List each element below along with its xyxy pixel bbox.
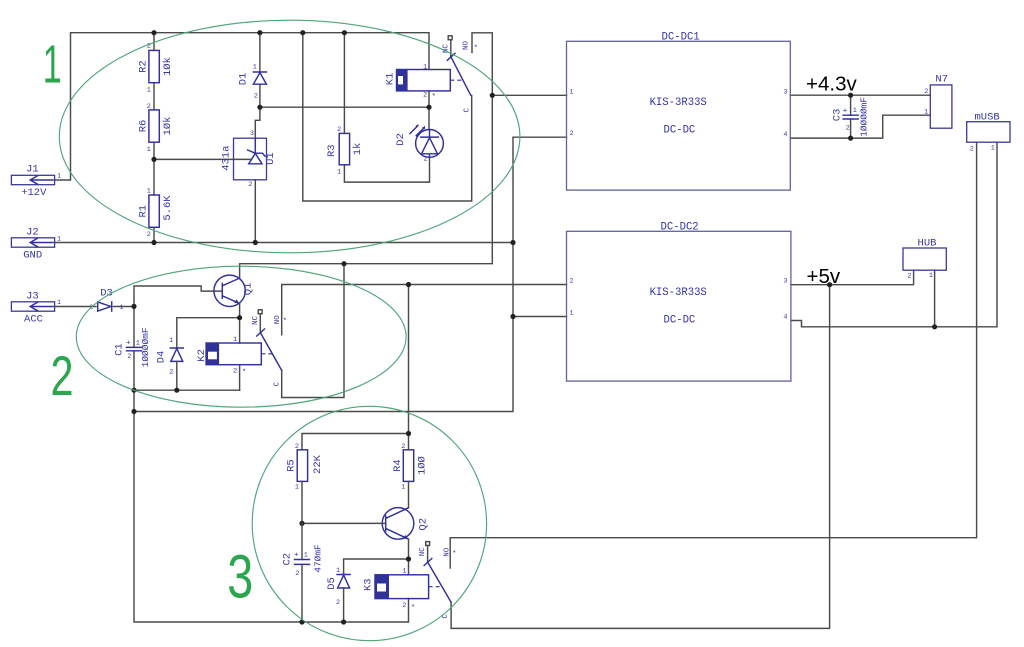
wire K3-NO to mUSB pin2 [450,142,976,568]
transistor Q1 [214,275,255,306]
svg-text:J3: J3 [26,290,39,302]
svg-text:1: 1 [336,567,340,575]
node junction C1 bottom loop [131,388,136,393]
svg-text:2: 2 [127,353,131,361]
svg-text:C3: C3 [832,109,844,122]
svg-text:2: 2 [907,272,911,280]
diode D5 [326,567,350,622]
svg-text:1: 1 [924,108,928,116]
svg-text:J1: J1 [26,164,39,176]
resistor R6 [138,103,174,195]
svg-text:GND: GND [23,250,42,262]
svg-text:J2: J2 [26,226,39,238]
svg-text:DC-DC: DC-DC [664,314,696,326]
relay K1 coil [384,64,450,102]
svg-text:2: 2 [424,156,428,164]
svg-text:R4: R4 [392,459,404,472]
node junction HUB pin1 on pin4 line [932,324,937,329]
svg-text:1: 1 [929,272,933,280]
svg-text:2: 2 [295,443,299,451]
svg-text:1: 1 [423,64,427,72]
svg-text:N7: N7 [935,73,948,85]
wire +12V rail from J1 up and across to K1 coil pin1 [55,33,429,180]
relay K2 switch contacts NC NO C [252,310,287,387]
wire D1 anode node to K1 coil pin2 (y107) [260,106,429,108]
svg-text:NC: NC [419,547,427,557]
svg-text:2: 2 [570,130,574,138]
svg-text:*: * [432,94,437,102]
node junction C2 on ground rail [299,619,304,624]
relay K3 switch dash-dot link [429,586,440,588]
wire D3 cathode to node [114,306,135,308]
svg-text:1: 1 [295,484,299,492]
svg-text:1: 1 [401,484,405,492]
svg-text:47ØmF: 47ØmF [312,544,323,573]
node junction Q1 emitter / D4 / K2 pin1 [237,315,242,320]
svg-text:1: 1 [253,63,257,71]
svg-text:D4: D4 [156,351,168,364]
wire K2 switch C loop to collector line [282,264,344,398]
wire K2/D4/C1 ground loop [134,389,240,391]
wire emitter node to D5 and K3 pin1 [344,559,409,575]
wire K1-NO node down to Q1 collector line y263.7 [240,95,493,278]
connector mUSB [967,111,1010,153]
relay K2 switch dash-dot link [261,353,272,355]
wire DC-DC1 pin4 to N7 pin1 with jog [790,115,930,138]
node junction K1-NO / DC-DC1 pin1 [490,93,495,98]
svg-text:4: 4 [783,314,787,322]
wire node to Q1 base with jog [134,286,222,306]
svg-text:1: 1 [147,87,151,95]
svg-text:NC: NC [252,315,260,325]
svg-text:*: * [242,369,247,377]
wire K1 C-contact loop to +12 rail [303,33,472,201]
svg-text:R5: R5 [286,459,298,472]
svg-text:R2: R2 [138,60,150,73]
resistor R2 [138,33,174,110]
wire R4 branch from y284.5 down to R4 [408,285,410,450]
svg-text:1Øk: 1Øk [162,57,174,76]
connector HUB [903,237,946,280]
svg-text:Q2: Q2 [418,518,430,531]
wire C3 top stub [850,95,852,115]
svg-text:2: 2 [295,570,299,578]
svg-text:2: 2 [846,125,850,133]
svg-text:R3: R3 [326,144,338,157]
svg-text:2: 2 [254,93,258,101]
svg-text:1: 1 [304,552,308,560]
node junction D4 anode on loop [174,388,179,393]
capacitor C1 [114,327,151,367]
svg-text:4: 4 [783,131,787,139]
svg-text:KIS-3R33S: KIS-3R33S [650,97,707,109]
svg-text:+5v: +5v [807,265,841,288]
connector J1 +12V [11,164,61,199]
svg-text:431a: 431a [220,146,232,171]
wire DC-DC1 pin3 +4.3v line to N7 pin2 [790,94,930,96]
svg-text:1: 1 [991,145,995,153]
node junction K2 loop on collector line [341,261,346,266]
wire C1 column down to group3 ground rail and K3 coil pin2 [133,306,135,347]
svg-text:1: 1 [147,146,151,154]
relay K3 switch contacts NC NO C [419,542,456,619]
svg-text:1: 1 [169,337,173,345]
svg-text:3: 3 [227,543,253,611]
svg-text:+4.3v: +4.3v [806,72,857,95]
wire Q2 emitter down [408,539,410,559]
svg-text:2: 2 [248,181,252,189]
wire GND rail from J2 to x513 [55,242,513,244]
svg-text:1k: 1k [352,143,364,156]
svg-text:*: * [452,551,457,559]
svg-text:C: C [464,108,472,113]
svg-text:mUSB: mUSB [974,111,999,123]
node junctions on +12 rail [151,30,156,35]
svg-text:NO: NO [443,547,451,557]
svg-text:*: * [411,605,416,613]
svg-text:5.6K: 5.6K [162,195,174,221]
wire Q1 emitter to K2 node [239,304,241,318]
svg-text:DC-DC1: DC-DC1 [662,32,700,44]
wire C3 bottom stub [850,119,852,138]
svg-text:2: 2 [337,126,341,134]
svg-text:D1: D1 [238,73,250,86]
svg-text:NO: NO [274,315,282,325]
svg-text:3: 3 [783,88,787,96]
svg-text:1: 1 [233,336,237,344]
node junction D3 output [131,304,136,309]
wire U1 pin2 to GND rail [254,180,256,243]
wire DC-DC2 pin1 stub from GND vertical [513,316,567,318]
op-amp U3 DC-DC2 module [567,222,791,381]
svg-text:1: 1 [136,340,140,348]
transistor Q2 [382,508,429,540]
svg-text:3: 3 [783,278,787,286]
svg-text:2: 2 [169,369,173,377]
svg-text:KIS-3R33S: KIS-3R33S [650,287,707,299]
wire emitter node to D4 and K2 pin1 [177,318,240,348]
svg-text:1: 1 [57,299,61,307]
svg-text:2: 2 [402,602,406,610]
wire DC-DC2 pin3 +5v line to HUB pin2 [791,270,914,285]
svg-text:2: 2 [570,278,574,286]
svg-text:C1: C1 [114,343,126,356]
wire GND vertical x513 down with DC-DC1 pin2 feed, left along y411.5 [134,137,567,411]
relay K3 coil [362,567,428,612]
node junction D5 on ground rail [341,619,346,624]
svg-text:1ØØØØmF: 1ØØØØmF [858,97,869,137]
node junction C3 top on +4.3v line [848,93,853,98]
svg-text:1: 1 [120,304,124,312]
relay K1 switch dash-dot link [450,79,463,81]
svg-text:*: * [283,318,288,326]
node junction R5 / C2 / Q2 base [299,521,304,526]
svg-text:K1: K1 [384,73,396,86]
diode D4 [156,337,184,390]
ellipse group 2 [76,266,406,407]
svg-text:D2: D2 [395,133,407,146]
svg-text:DC-DC2: DC-DC2 [661,222,699,234]
svg-text:HUB: HUB [918,237,937,249]
svg-text:1: 1 [853,107,857,115]
node junction DC-DC2 pin1 GND [510,314,515,319]
resistor R5 [286,443,324,523]
capacitor C3 [832,97,870,137]
svg-text:1: 1 [402,567,406,575]
svg-text:2: 2 [924,88,928,96]
diode D1 [238,33,267,108]
resistor R3 [326,33,430,182]
op-amp U1 TL431 [220,130,277,189]
svg-text:R1: R1 [138,205,150,218]
ellipse group 3 [252,406,486,640]
svg-text:+: + [126,340,131,348]
wire group3 top rail to R5 [302,434,409,450]
wire K1-NO node to DC-DC1 pin1 [492,94,566,96]
wire +5v branch down to K3 switch C [451,285,829,629]
resistor R4 [392,443,429,508]
wire K2-NO up to DC-DC2 pin2 line y284.5 [282,285,567,335]
op-amp U2 DC-DC1 module [567,32,791,190]
svg-text:+12V: +12V [21,187,47,199]
wire jog from node down to U1 pin3 [255,107,260,138]
connector J3 ACC [11,290,61,325]
node junction D1/U1/K1 line [257,105,262,110]
svg-text:1ØØØØmF: 1ØØØØmF [140,327,151,367]
svg-text:R6: R6 [138,120,150,133]
svg-text:1: 1 [57,236,61,244]
diode D3 [89,288,123,312]
node junction +5v branch [827,282,832,287]
wire HUB pin1 stub [934,270,936,327]
wire R6/R1 junction to U1 ref [154,158,234,160]
svg-text:2: 2 [336,599,340,607]
node junction C3 bottom on pin4 line [848,136,853,141]
connector J2 GND [11,226,61,261]
svg-text:3: 3 [250,130,254,138]
svg-text:U1: U1 [265,152,277,165]
svg-text:2: 2 [970,146,974,154]
svg-text:1: 1 [337,168,341,176]
svg-text:2: 2 [147,103,151,111]
relay K2 coil [196,336,261,390]
svg-text:1: 1 [423,126,427,134]
svg-text:*: * [474,45,479,53]
svg-text:2: 2 [233,367,237,375]
svg-text:C: C [273,381,281,386]
svg-text:1: 1 [570,88,574,96]
node junction K1 pin2 / D2 / D1 line [426,105,431,110]
svg-text:22K: 22K [312,454,324,474]
node junction R6-R1-U1ref [151,157,156,162]
node junctions on GND rail [151,240,156,245]
LED D2 [395,91,444,164]
svg-text:K2: K2 [196,349,208,362]
svg-text:2: 2 [401,443,405,451]
svg-text:NO: NO [463,41,471,51]
ellipse group 1 [59,20,520,253]
node junction R4 branch on DC-DC2 pin2 line [406,282,411,287]
svg-text:1Øk: 1Øk [162,117,174,136]
resistor R1 [138,188,174,243]
capacitor C2 [282,523,324,622]
svg-text:1: 1 [57,173,61,181]
svg-text:1: 1 [570,310,574,318]
svg-text:2: 2 [51,344,74,407]
svg-text:Q1: Q1 [243,283,255,296]
wire DC-DC2 pin4 jog to mUSB pin1 [791,142,997,327]
wire J3/ACC lead to D3 [55,306,96,308]
node junction Q2 emitter / D5 / K3 pin1 [406,556,411,561]
svg-text:C2: C2 [282,553,294,566]
svg-text:2: 2 [147,231,151,239]
svg-text:1: 1 [147,188,151,196]
connector N7 [924,73,952,128]
svg-text:1: 1 [43,35,62,95]
svg-text:+: + [294,552,299,560]
wire base wire R5/C2 node to Q2 [302,522,386,524]
svg-text:D5: D5 [326,577,338,590]
svg-text:ACC: ACC [24,314,43,326]
svg-text:1ØØ: 1ØØ [416,456,428,475]
node junction R4 top rail [406,431,411,436]
svg-text:2: 2 [423,92,427,100]
svg-text:DC-DC: DC-DC [664,124,696,136]
relay K1 switch contacts NC NO C [443,33,493,113]
node junction GND rail2 at C1 column [131,409,136,414]
svg-text:K3: K3 [362,578,374,591]
